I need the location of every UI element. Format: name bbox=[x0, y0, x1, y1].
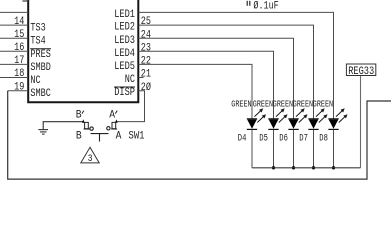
svg-text:GREEN: GREEN bbox=[253, 100, 273, 110]
svg-text:18: 18 bbox=[14, 68, 24, 80]
svg-text:25: 25 bbox=[141, 16, 151, 28]
svg-text:NC: NC bbox=[125, 74, 136, 86]
svg-text:LED3: LED3 bbox=[114, 35, 135, 47]
svg-text:DISP: DISP bbox=[114, 87, 135, 99]
svg-text:LED5: LED5 bbox=[114, 61, 135, 73]
svg-text:D5: D5 bbox=[259, 133, 268, 144]
svg-text:LED2: LED2 bbox=[114, 22, 135, 34]
svg-text:19: 19 bbox=[14, 81, 24, 93]
svg-text:NC: NC bbox=[30, 75, 41, 87]
svg-text:GREEN: GREEN bbox=[293, 100, 313, 110]
svg-text:23: 23 bbox=[141, 42, 151, 54]
svg-text:LED1: LED1 bbox=[114, 9, 135, 21]
svg-text:TS3: TS3 bbox=[30, 23, 45, 35]
svg-text:B: B bbox=[76, 109, 82, 121]
svg-text:22: 22 bbox=[141, 56, 151, 68]
svg-text:14: 14 bbox=[14, 16, 25, 28]
svg-text:LED4: LED4 bbox=[114, 48, 135, 60]
svg-text:D6: D6 bbox=[279, 133, 288, 144]
svg-text:PRES: PRES bbox=[30, 49, 51, 61]
svg-text:3: 3 bbox=[88, 154, 93, 165]
svg-text:Ø.1uF: Ø.1uF bbox=[253, 1, 278, 13]
svg-text:15: 15 bbox=[14, 29, 24, 41]
svg-text:21: 21 bbox=[141, 69, 152, 81]
svg-text:GREEN: GREEN bbox=[273, 100, 293, 110]
svg-text:SMBD: SMBD bbox=[30, 62, 51, 74]
svg-text:A: A bbox=[116, 131, 122, 143]
svg-text:SMBC: SMBC bbox=[30, 88, 51, 100]
svg-text:TS4: TS4 bbox=[30, 36, 46, 48]
svg-text:16: 16 bbox=[14, 42, 24, 54]
svg-text:A: A bbox=[109, 109, 115, 121]
svg-text:2Ø: 2Ø bbox=[141, 82, 152, 94]
svg-text:D7: D7 bbox=[299, 133, 308, 144]
svg-text:GREEN: GREEN bbox=[231, 100, 251, 110]
svg-text:24: 24 bbox=[141, 29, 152, 41]
svg-text:D4: D4 bbox=[238, 133, 247, 144]
svg-text:GREEN: GREEN bbox=[313, 100, 333, 110]
svg-text:D8: D8 bbox=[319, 133, 328, 144]
svg-text:REG33: REG33 bbox=[348, 66, 374, 78]
svg-text:SW1: SW1 bbox=[129, 130, 145, 142]
svg-text:B: B bbox=[76, 131, 82, 143]
svg-text:17: 17 bbox=[14, 55, 24, 67]
